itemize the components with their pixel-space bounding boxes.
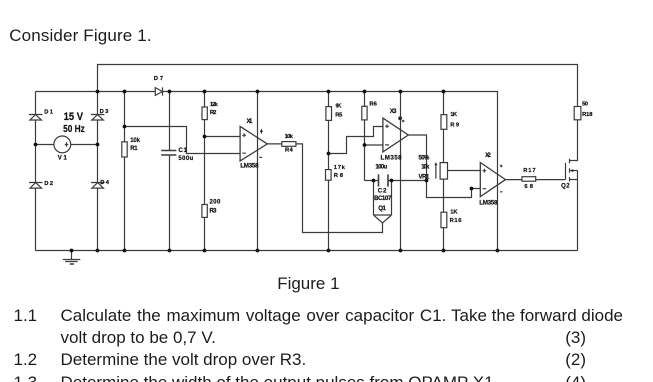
svg-text:LM358: LM358 — [240, 163, 259, 170]
svg-text:C1: C1 — [178, 147, 187, 154]
svg-text:R6: R6 — [369, 101, 377, 107]
svg-text:R5: R5 — [335, 112, 343, 118]
svg-text:VR1: VR1 — [419, 175, 431, 181]
svg-text:12k: 12k — [210, 102, 219, 108]
svg-text:50 Hz: 50 Hz — [63, 122, 85, 134]
svg-text:D3: D3 — [100, 109, 110, 115]
svg-text:10k: 10k — [130, 138, 140, 144]
svg-text:R2: R2 — [210, 110, 216, 116]
svg-text:500u: 500u — [178, 156, 193, 162]
svg-text:17k: 17k — [334, 165, 346, 171]
svg-text:D2: D2 — [44, 181, 53, 187]
svg-text:D4: D4 — [100, 180, 110, 186]
svg-text:LM358: LM358 — [479, 200, 498, 207]
svg-text:200: 200 — [210, 199, 221, 205]
svg-text:D1: D1 — [44, 109, 54, 115]
svg-text:50%: 50% — [419, 155, 431, 161]
svg-text:V1: V1 — [58, 155, 68, 161]
svg-text:X2: X2 — [485, 152, 491, 159]
svg-text:Q1: Q1 — [378, 205, 386, 212]
svg-text:R3: R3 — [210, 208, 218, 214]
svg-text:LM358: LM358 — [381, 154, 403, 161]
svg-text:10k: 10k — [421, 165, 430, 171]
svg-text:R18: R18 — [582, 112, 593, 118]
svg-text:X1: X1 — [247, 118, 254, 125]
svg-text:R4: R4 — [285, 147, 293, 153]
svg-text:R16: R16 — [450, 218, 463, 224]
svg-text:10k: 10k — [285, 134, 294, 140]
svg-text:R1: R1 — [130, 146, 138, 152]
svg-text:R8: R8 — [334, 173, 344, 179]
svg-text:D7: D7 — [154, 76, 163, 82]
svg-text:X3: X3 — [390, 108, 397, 115]
svg-text:R17: R17 — [523, 168, 535, 174]
svg-text:Q2: Q2 — [561, 183, 570, 189]
svg-text:C2: C2 — [378, 187, 387, 194]
svg-text:50: 50 — [582, 101, 588, 107]
svg-text:1K: 1K — [450, 112, 458, 118]
svg-text:9K: 9K — [336, 103, 343, 109]
svg-text:6 8: 6 8 — [524, 184, 533, 190]
svg-text:1K: 1K — [450, 210, 458, 216]
svg-text:BC107: BC107 — [374, 196, 392, 202]
svg-text:R9: R9 — [450, 122, 460, 128]
svg-text:100u: 100u — [375, 165, 387, 171]
